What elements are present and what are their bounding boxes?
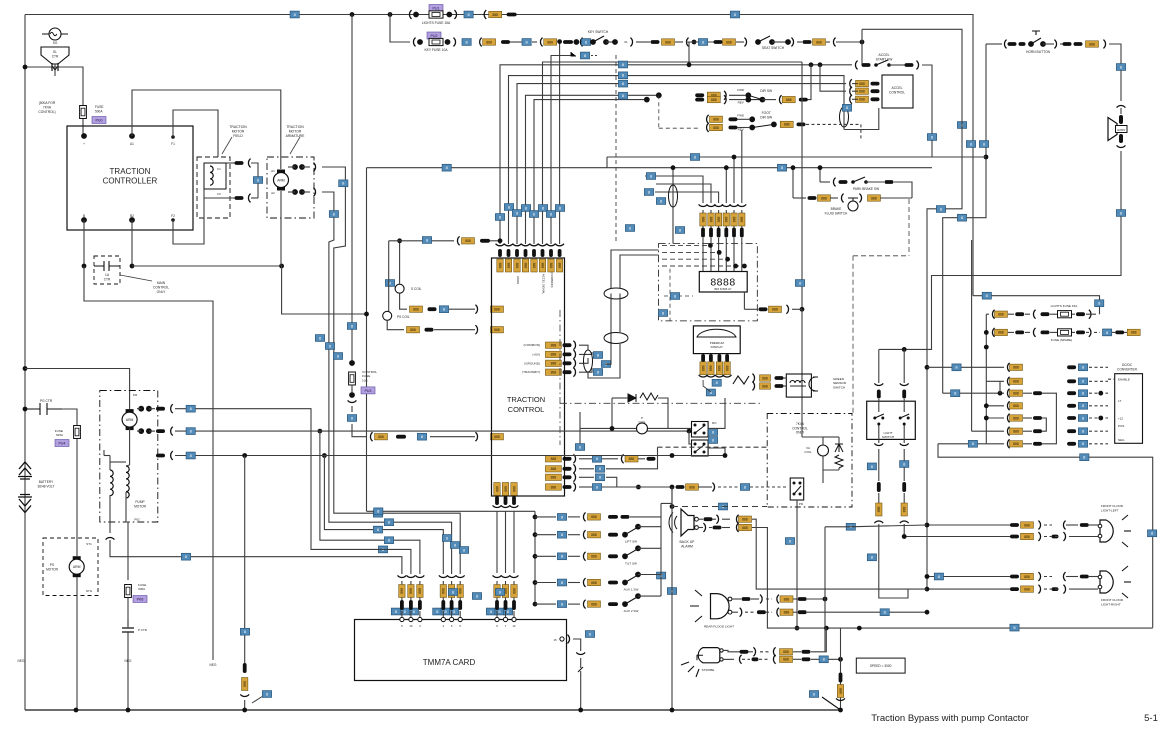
BDI dash link4 — [662, 265, 744, 267]
connector — [753, 647, 755, 656]
connector label — [588, 514, 601, 520]
junction — [670, 504, 675, 509]
svg-text:888: 888 — [512, 486, 516, 492]
junction — [692, 40, 697, 45]
wire — [612, 397, 628, 399]
svg-text:888: 888 — [859, 98, 865, 102]
connector label — [662, 39, 675, 45]
connector terminal — [759, 307, 768, 311]
RO1 contacts — [694, 424, 697, 427]
wire armature A2 down — [280, 191, 282, 266]
w — [109, 456, 111, 463]
harness connector — [707, 204, 716, 206]
wire number — [625, 225, 634, 232]
wire number — [333, 353, 342, 360]
svg-text:(TRANSMIT): (TRANSMIT) — [522, 370, 540, 374]
connector — [723, 375, 732, 377]
svg-text:888: 888 — [1013, 380, 1019, 384]
connector terminal — [156, 454, 165, 458]
connector — [1054, 40, 1056, 49]
connector label — [1127, 329, 1140, 335]
w — [718, 226, 720, 228]
tc top pin — [515, 249, 519, 257]
junction — [279, 264, 284, 269]
connector — [707, 375, 716, 377]
connector terminal — [695, 93, 704, 97]
rear flood light lamp — [690, 590, 732, 622]
svg-text:DIR SW: DIR SW — [760, 89, 773, 93]
connector — [916, 61, 918, 70]
svg-text:888: 888 — [441, 588, 445, 594]
w2 — [825, 526, 849, 528]
connector — [900, 383, 909, 385]
suppression resistor — [640, 393, 658, 400]
w — [1066, 576, 1078, 578]
wire harness riser3 — [655, 192, 719, 203]
connector terminal — [839, 673, 843, 683]
wire backup row2 to loop — [752, 528, 1153, 629]
wire harness riser6 — [741, 130, 743, 203]
connector terminal — [450, 600, 454, 610]
wire — [580, 427, 612, 429]
sw contact — [635, 545, 641, 551]
svg-text:DC/DC: DC/DC — [1122, 363, 1133, 367]
dash3 — [766, 611, 772, 613]
wire serial riser2 — [588, 344, 620, 378]
svg-text:888: 888 — [551, 353, 557, 357]
premium pin label — [708, 362, 714, 375]
connector terminal — [740, 650, 749, 654]
w — [451, 581, 453, 585]
svg-text:(+5V): (+5V) — [532, 352, 540, 356]
tc top pin connector — [530, 244, 539, 246]
harness label — [715, 213, 721, 226]
junction — [533, 602, 538, 607]
wire number — [593, 352, 602, 359]
connector terminal — [608, 533, 618, 537]
connector label — [588, 532, 601, 538]
wire — [388, 270, 390, 311]
connector — [791, 38, 793, 47]
connector terminal — [1080, 575, 1089, 579]
w — [109, 495, 111, 508]
front flood light right — [1098, 566, 1131, 598]
svg-text:ACCEL: ACCEL — [892, 86, 903, 90]
connector — [786, 305, 788, 314]
connector label — [1021, 586, 1034, 592]
connector terminal — [495, 496, 499, 505]
wire — [610, 294, 612, 301]
svg-text:888: 888 — [665, 40, 671, 44]
diag — [252, 696, 263, 703]
connector label — [995, 329, 1008, 335]
svg-text:SPEED = 3000: SPEED = 3000 — [870, 664, 892, 668]
junction — [857, 626, 862, 631]
pin — [745, 97, 751, 103]
wire number — [378, 546, 387, 553]
tc pin label — [491, 306, 504, 312]
wire control fuse feed — [351, 15, 353, 367]
wire number — [373, 510, 382, 517]
pin — [749, 116, 755, 122]
junction — [242, 453, 247, 458]
PD contact box — [790, 478, 804, 500]
wire number — [422, 237, 431, 244]
pin — [656, 92, 662, 98]
wire — [698, 527, 703, 529]
wire number — [934, 573, 943, 580]
tc top pin — [507, 249, 511, 257]
svg-text:AUX 1 SW: AUX 1 SW — [624, 588, 639, 592]
connector — [773, 655, 775, 664]
connector — [510, 505, 519, 507]
DC/DC converter box — [1115, 374, 1143, 444]
wire — [698, 518, 703, 520]
connector — [724, 95, 726, 104]
wire — [302, 166, 310, 168]
connector label — [782, 96, 795, 102]
svg-text:888: 888 — [486, 40, 492, 44]
wire flood R row2 — [927, 588, 1015, 590]
dash — [766, 598, 772, 600]
connector terminal — [495, 600, 499, 610]
PS coil — [383, 311, 392, 320]
w — [741, 210, 743, 213]
pin — [785, 39, 791, 45]
connector label — [739, 524, 752, 530]
wire pcoil feed — [579, 412, 581, 445]
TILT SW blade — [625, 549, 637, 556]
junction — [809, 62, 814, 67]
wire left battery negative rail — [24, 15, 26, 711]
wire number — [538, 205, 547, 212]
svg-text:888: 888 — [512, 588, 516, 594]
w — [580, 671, 582, 710]
card pin label — [511, 585, 517, 598]
w — [401, 598, 403, 601]
junction — [984, 416, 989, 421]
svg-text:CONTROL): CONTROL) — [38, 110, 55, 114]
svg-text:888: 888 — [701, 217, 705, 223]
card connector — [398, 575, 407, 577]
wire number — [347, 323, 356, 330]
svg-text:888: 888 — [409, 588, 413, 594]
wire ls out2 — [878, 449, 880, 481]
connector — [715, 375, 724, 377]
premium pin — [718, 354, 722, 362]
premium display lens — [697, 329, 736, 337]
tc serial pin label — [545, 342, 561, 348]
fuse 500A label — [92, 117, 106, 124]
wire bottom negative bus — [25, 709, 841, 711]
wire s coil to row — [400, 293, 407, 309]
wire number — [1148, 530, 1157, 537]
wire number — [347, 415, 356, 422]
BDI dash link1 — [662, 244, 710, 246]
svg-text:F1: F1 — [171, 142, 175, 146]
card pin label — [457, 585, 463, 598]
wire link column2 — [1042, 418, 1046, 431]
junction — [723, 453, 728, 458]
dcdc connector label — [1010, 415, 1023, 421]
svg-text:DISPLAY: DISPLAY — [711, 345, 723, 349]
wire SL to tip — [54, 64, 56, 76]
svg-text:MOTOR: MOTOR — [46, 567, 59, 571]
connector — [874, 383, 883, 385]
dcdc connector — [1007, 377, 1009, 386]
svg-text:888: 888 — [498, 263, 502, 269]
w — [1069, 536, 1098, 538]
svg-text:888: 888 — [494, 328, 500, 332]
tc top pin label — [531, 259, 537, 272]
connector terminal — [1015, 331, 1024, 335]
wire number — [557, 579, 566, 586]
card pin — [450, 617, 454, 621]
svg-text:FUSE (SPARE): FUSE (SPARE) — [1051, 338, 1072, 342]
svg-text:FLUID SWITCH: FLUID SWITCH — [825, 211, 848, 215]
wire — [880, 197, 912, 199]
PS motor armature — [69, 556, 84, 577]
svg-text:FM: FM — [133, 393, 138, 397]
connector label — [760, 383, 771, 389]
connector — [493, 505, 502, 507]
contact — [299, 164, 305, 170]
connector — [583, 552, 585, 561]
wire B2 to 1A CTR — [131, 220, 133, 266]
w — [793, 611, 797, 613]
svg-text:+12: +12 — [1118, 417, 1123, 421]
wire fuse to PS motor — [76, 439, 78, 538]
wire number — [667, 588, 676, 595]
wire — [1072, 313, 1075, 315]
w — [722, 527, 730, 529]
connector terminal — [1067, 391, 1076, 395]
svg-text:LIGHTS FUSE 15A: LIGHTS FUSE 15A — [1051, 304, 1079, 308]
junction — [818, 165, 823, 170]
junction — [578, 708, 583, 713]
wire row2 feed — [986, 380, 1004, 382]
connector label — [375, 434, 388, 440]
svg-text:888: 888 — [859, 82, 865, 86]
w — [748, 651, 753, 653]
wire riser 971 — [971, 240, 973, 431]
dash3 — [759, 658, 770, 660]
w — [496, 581, 498, 585]
wire pump row tap3 to card — [324, 456, 443, 575]
wire number — [819, 656, 828, 663]
dash to dcdc — [1089, 380, 1108, 382]
wire display feed — [702, 238, 704, 272]
svg-text:PG CTR: PG CTR — [40, 399, 53, 403]
svg-text:888: 888 — [726, 40, 732, 44]
serial connector — [573, 350, 575, 359]
wire number — [658, 310, 667, 317]
svg-text:REV: REV — [738, 128, 744, 132]
svg-text:888: 888 — [742, 526, 748, 530]
dcdc connector label — [1010, 441, 1023, 447]
VA resistor — [835, 455, 843, 468]
wire — [1043, 43, 1054, 45]
RO2 contacts — [694, 443, 697, 446]
wire — [1072, 331, 1075, 333]
svg-text:LIFT SW: LIFT SW — [625, 540, 637, 544]
dcdc connector label — [1010, 378, 1023, 384]
wire number — [557, 514, 566, 521]
connector — [716, 515, 718, 524]
wire — [1008, 331, 1014, 333]
wire F1 to field — [173, 110, 218, 157]
svg-text:888: 888 — [877, 507, 881, 513]
wire — [434, 329, 475, 331]
TMM7A card box — [355, 620, 567, 681]
connector label — [723, 39, 736, 45]
connector terminal — [243, 663, 247, 673]
horn connector break — [1117, 105, 1126, 107]
tc top pin label — [522, 259, 528, 272]
junction — [533, 532, 538, 537]
terminal B- — [81, 217, 87, 223]
tc top pin connector — [555, 244, 564, 246]
wire — [579, 468, 594, 470]
armature connector — [313, 163, 315, 172]
connector terminal — [563, 370, 572, 374]
seat switch blade — [758, 36, 770, 42]
w — [505, 611, 507, 617]
wire — [1025, 313, 1030, 315]
wire number — [459, 547, 468, 554]
harness label — [700, 213, 706, 226]
wire harness riser5 — [733, 157, 735, 203]
svg-text:NEG: NEG — [1118, 438, 1125, 442]
svg-text:888: 888 — [762, 384, 768, 388]
wire — [729, 99, 746, 101]
accel pin label — [856, 88, 869, 94]
svg-text:FWD: FWD — [737, 88, 745, 92]
wire PD down — [796, 500, 798, 628]
junction — [557, 39, 562, 44]
wire number — [966, 141, 975, 148]
wire number — [842, 104, 851, 111]
connector terminal — [563, 353, 572, 357]
svg-text:SG: SG — [53, 41, 58, 45]
w — [1089, 576, 1098, 578]
connector terminal — [1019, 42, 1026, 46]
wire long accessory row 168 — [367, 167, 933, 169]
wire — [612, 427, 636, 429]
harness label — [723, 213, 729, 226]
connector — [484, 10, 486, 19]
connector terminal — [871, 97, 880, 101]
wire number — [618, 92, 627, 99]
connector terminal — [695, 98, 704, 102]
connector label — [780, 121, 793, 127]
svg-text:PU2: PU2 — [431, 34, 438, 38]
tc pin label — [545, 456, 561, 462]
svg-text:LIGHTS FUSE 15A: LIGHTS FUSE 15A — [422, 21, 451, 25]
premium pin label — [724, 362, 730, 375]
svg-text:888: 888 — [551, 362, 557, 366]
PG CTR contact — [25, 403, 62, 415]
connector — [573, 483, 575, 492]
svg-text:888: 888 — [701, 365, 705, 371]
connector label — [489, 11, 502, 17]
svg-text:888: 888 — [591, 581, 597, 585]
svg-text:888: 888 — [1131, 331, 1137, 335]
connector terminal — [1067, 404, 1076, 408]
armature connector — [313, 188, 315, 197]
svg-text:NEG: NEG — [125, 659, 132, 663]
svg-text:ONLY: ONLY — [796, 431, 805, 435]
wire serial to display — [611, 250, 659, 288]
w — [722, 518, 730, 520]
w — [442, 611, 444, 617]
w — [702, 226, 704, 228]
w — [638, 574, 661, 576]
svg-text:888: 888 — [784, 611, 790, 615]
wire horn button to horn — [1109, 44, 1121, 101]
dir sw dash edge2 — [659, 127, 700, 129]
connector terminal — [1052, 587, 1059, 591]
connector terminal — [608, 554, 618, 558]
tc bottom pin label — [494, 483, 500, 496]
dash — [1044, 524, 1052, 526]
connector — [475, 305, 477, 314]
connector terminal — [871, 89, 880, 93]
wire RO1 out — [708, 398, 725, 428]
ground ref bracket2 — [571, 52, 576, 56]
junction — [23, 65, 28, 70]
wire — [903, 399, 905, 401]
dashed vertical — [615, 55, 617, 243]
connector terminal — [458, 600, 462, 610]
wire number — [1078, 428, 1087, 435]
svg-text:888: 888 — [716, 217, 720, 223]
w — [630, 516, 661, 518]
premium display box — [693, 326, 740, 354]
wire — [820, 181, 830, 183]
wire number — [374, 508, 383, 515]
wire number — [1078, 364, 1087, 371]
dash to dcdc — [1089, 417, 1108, 419]
field terminal — [235, 196, 244, 200]
connector terminal — [808, 196, 817, 200]
VA diode — [835, 444, 843, 452]
wire — [579, 486, 592, 488]
wn — [867, 463, 876, 470]
junction — [318, 429, 323, 434]
connector terminal — [156, 429, 165, 433]
wire — [732, 598, 741, 600]
junction — [717, 250, 722, 255]
card connector — [501, 575, 510, 577]
wire field jumper — [251, 163, 258, 198]
svg-text:10: 10 — [409, 624, 413, 628]
connector — [707, 115, 709, 124]
wire key to accessories — [689, 42, 802, 62]
connector terminal — [1067, 365, 1076, 369]
connector — [573, 464, 575, 473]
connector terminal — [1041, 331, 1050, 335]
svg-text:888: 888 — [786, 98, 792, 102]
traction controller box — [67, 126, 193, 230]
wire — [736, 41, 744, 43]
svg-text:10A: 10A — [362, 378, 368, 382]
wire bus tap to dir out — [802, 65, 811, 100]
wire pin6 display feed — [543, 62, 803, 244]
tc top pin connector — [504, 244, 513, 246]
connector — [1038, 572, 1040, 581]
speed box — [856, 658, 905, 673]
